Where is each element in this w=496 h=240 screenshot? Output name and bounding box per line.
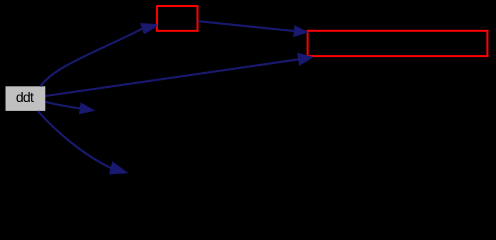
svg-text:ddt: ddt [16, 89, 34, 105]
edge ddt->top-box (curved) [41, 24, 157, 87]
edge top-box->big-box [198, 21, 307, 36]
edge ddt->big-box (long) [46, 53, 313, 96]
node ddt (grey, current) [6, 86, 46, 111]
edge ddt->hidden-node-1 (short) [46, 102, 95, 114]
node big red box [308, 31, 488, 56]
node top red box [157, 6, 198, 31]
edge ddt->hidden-node-2 (curved down) [38, 111, 127, 174]
